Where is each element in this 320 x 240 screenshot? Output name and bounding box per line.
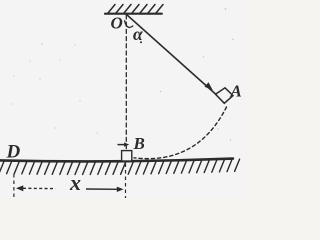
svg-text:α: α <box>133 24 143 44</box>
svg-text:D: D <box>6 142 21 163</box>
arrowhead on string near A <box>205 82 213 90</box>
string O to A <box>126 14 215 94</box>
paper background <box>0 0 245 198</box>
left dimension arrow <box>16 185 23 191</box>
block A (rotated square) <box>216 88 234 104</box>
dimension dashed vertical under D <box>13 174 15 198</box>
ceiling hatching <box>108 5 163 14</box>
block B <box>122 151 132 161</box>
svg-text:x: x <box>69 170 81 195</box>
svg-text:O: O <box>111 14 123 33</box>
svg-text:A: A <box>230 82 242 101</box>
dashed arc trajectory A to B <box>134 107 227 159</box>
dimension dashed vertical under B <box>125 164 127 199</box>
right dimension arrow <box>86 188 119 190</box>
svg-text:B: B <box>133 134 145 153</box>
ground hatching <box>0 159 240 174</box>
small arrow on top of block B <box>118 144 125 146</box>
faint scan specks <box>11 8 233 141</box>
ceiling line <box>105 13 162 15</box>
dashed vertical line from O to B <box>125 15 127 150</box>
angle arc at O <box>125 21 133 28</box>
ground line <box>0 159 233 162</box>
